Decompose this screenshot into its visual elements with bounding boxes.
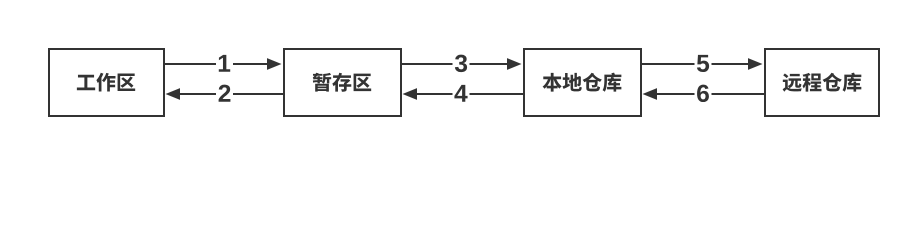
label 2 — [219, 85, 231, 102]
label 4 white backing — [453, 87, 470, 101]
box 远程仓库 (remote repository) — [765, 49, 879, 116]
label 1 white backing — [216, 57, 233, 71]
wire: arrow line 5 (641->762.5) — [641, 63, 749, 65]
arrowhead 4 (points left) — [403, 88, 418, 100]
wire: arrow line 1 (164->281.5) — [164, 63, 268, 65]
git workflow diagram — [0, 0, 912, 150]
box 本地仓库 (local repository) — [524, 49, 641, 116]
wire: arrow line 4 (524->402.5) — [416, 93, 524, 95]
arrowhead 1 (points right) — [267, 58, 282, 70]
arrowhead 6 (points left) — [643, 88, 658, 100]
label 5 — [697, 55, 709, 72]
label 3 — [455, 55, 467, 72]
label 5 white backing — [695, 57, 712, 71]
box label 本地仓库 (local repository) — [543, 73, 622, 92]
label 6 white backing — [695, 87, 712, 101]
label 4 — [454, 85, 467, 102]
box label 远程仓库 (remote repository) — [783, 73, 862, 92]
box 暂存区 (staging area) — [284, 49, 401, 116]
label 1 — [219, 55, 230, 72]
wire: arrow line 2 (284->165.5) — [179, 93, 284, 95]
arrowhead 5 (points right) — [748, 58, 763, 70]
arrowhead 3 (points right) — [507, 58, 522, 70]
label 6 — [697, 85, 709, 102]
wire: arrow line 6 (765->642.5) — [656, 93, 765, 95]
wire: arrow line 3 (401->521.5) — [401, 63, 508, 65]
box 工作区 (working directory) — [49, 49, 164, 116]
box label 工作区 (working directory) — [77, 73, 135, 92]
box label 暂存区 (staging area) — [313, 73, 371, 92]
arrowhead 2 (points left) — [166, 88, 181, 100]
label 3 white backing — [453, 57, 470, 71]
label 2 white backing — [216, 87, 233, 101]
